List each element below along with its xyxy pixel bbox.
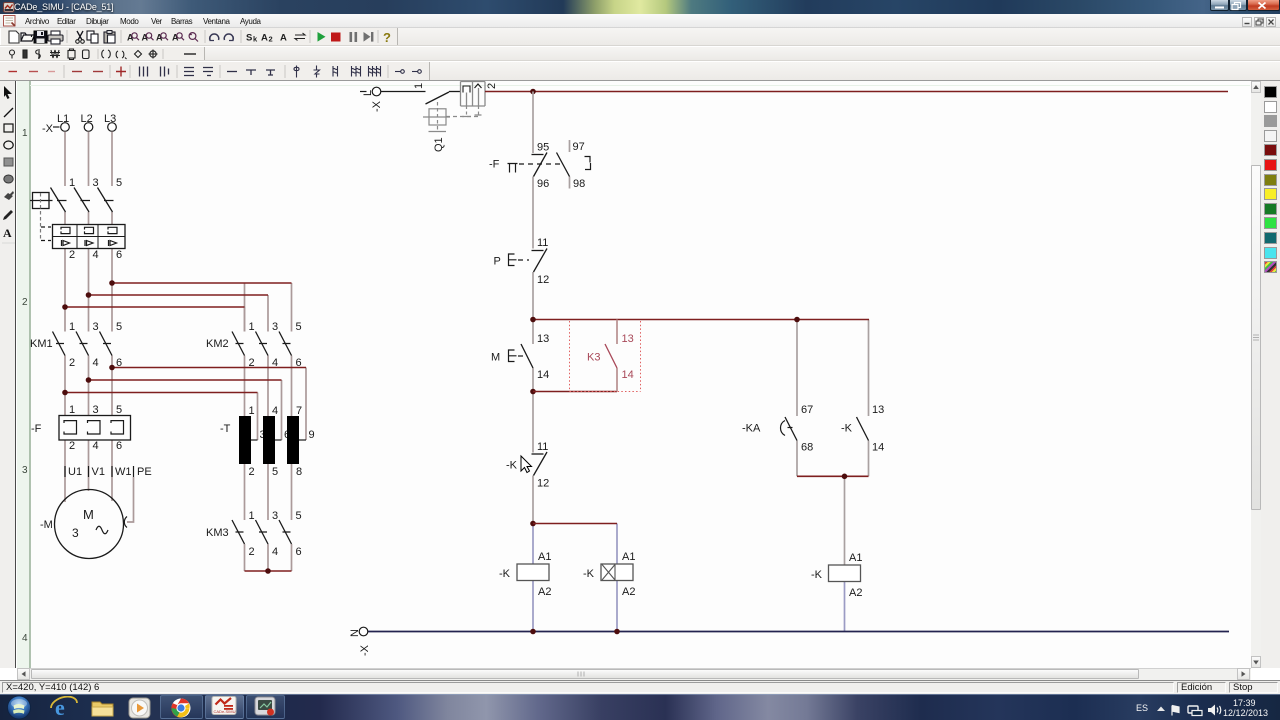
svg-text:14: 14 bbox=[622, 369, 634, 381]
svg-text:U1: U1 bbox=[68, 466, 82, 478]
svg-text:KM3: KM3 bbox=[206, 527, 229, 539]
svg-text:2: 2 bbox=[249, 466, 255, 478]
svg-text:2: 2 bbox=[249, 357, 255, 369]
svg-text:6: 6 bbox=[116, 357, 122, 369]
svg-text:6: 6 bbox=[296, 357, 302, 369]
svg-text:13: 13 bbox=[537, 333, 549, 345]
svg-text:A2: A2 bbox=[538, 586, 551, 598]
svg-text:4: 4 bbox=[93, 357, 99, 369]
svg-text:4: 4 bbox=[22, 633, 28, 644]
svg-text:A1: A1 bbox=[622, 551, 635, 563]
svg-text:14: 14 bbox=[872, 442, 884, 454]
svg-text:-K: -K bbox=[499, 568, 511, 580]
svg-text:-K: -K bbox=[583, 568, 595, 580]
svg-text:6: 6 bbox=[116, 440, 122, 452]
svg-text:W1: W1 bbox=[115, 466, 132, 478]
svg-text:A2: A2 bbox=[849, 587, 862, 599]
svg-text:95: 95 bbox=[537, 142, 549, 154]
svg-text:-X: -X bbox=[359, 644, 371, 656]
svg-text:13: 13 bbox=[622, 333, 634, 345]
svg-text:98: 98 bbox=[573, 178, 585, 190]
svg-text:5: 5 bbox=[116, 177, 122, 189]
svg-text:14: 14 bbox=[537, 369, 549, 381]
svg-text:67: 67 bbox=[801, 404, 813, 416]
svg-text:V1: V1 bbox=[92, 466, 105, 478]
svg-text:11: 11 bbox=[537, 237, 548, 249]
svg-text:2: 2 bbox=[69, 357, 75, 369]
svg-text:-K: -K bbox=[811, 569, 823, 581]
svg-text:A2: A2 bbox=[622, 586, 635, 598]
svg-text:2: 2 bbox=[22, 297, 28, 308]
svg-text:96: 96 bbox=[537, 178, 549, 190]
svg-text:A: A bbox=[3, 226, 12, 240]
svg-text:1: 1 bbox=[249, 510, 255, 522]
svg-text:-X: -X bbox=[42, 123, 54, 135]
svg-text:1: 1 bbox=[249, 321, 255, 333]
svg-text:12: 12 bbox=[537, 478, 549, 490]
svg-text:3: 3 bbox=[272, 321, 278, 333]
svg-text:CADe-SIMU: CADe-SIMU bbox=[214, 709, 236, 714]
svg-text:-T: -T bbox=[220, 423, 231, 435]
svg-text:13: 13 bbox=[872, 404, 884, 416]
svg-text:3: 3 bbox=[93, 177, 99, 189]
svg-text:4: 4 bbox=[272, 357, 278, 369]
svg-text:K3: K3 bbox=[587, 352, 600, 364]
svg-text:P: P bbox=[494, 256, 501, 268]
svg-text:-M: -M bbox=[40, 519, 53, 531]
svg-text:M: M bbox=[83, 507, 94, 522]
svg-text:9: 9 bbox=[309, 429, 315, 441]
svg-text:1: 1 bbox=[22, 128, 28, 139]
svg-text:?: ? bbox=[383, 30, 391, 45]
svg-text:1: 1 bbox=[69, 404, 75, 416]
svg-text:-K: -K bbox=[841, 423, 853, 435]
svg-text:3: 3 bbox=[93, 321, 99, 333]
svg-text:2: 2 bbox=[69, 440, 75, 452]
svg-text:Q1: Q1 bbox=[433, 137, 445, 152]
svg-text:4: 4 bbox=[272, 546, 278, 558]
svg-text:6: 6 bbox=[296, 546, 302, 558]
svg-text:M: M bbox=[491, 352, 500, 364]
svg-text:4: 4 bbox=[93, 440, 99, 452]
svg-text:97: 97 bbox=[573, 141, 585, 153]
svg-text:2: 2 bbox=[486, 83, 498, 89]
svg-text:3: 3 bbox=[72, 526, 79, 540]
svg-text:-KA: -KA bbox=[742, 423, 761, 435]
svg-text:PE: PE bbox=[137, 466, 152, 478]
svg-text:KM2: KM2 bbox=[206, 338, 229, 350]
svg-text:5: 5 bbox=[116, 321, 122, 333]
svg-text:4: 4 bbox=[272, 405, 278, 417]
svg-text:1: 1 bbox=[249, 405, 255, 417]
svg-text:A: A bbox=[280, 33, 287, 44]
svg-text:12: 12 bbox=[537, 274, 549, 286]
svg-text:2: 2 bbox=[269, 35, 273, 44]
svg-text:1: 1 bbox=[413, 83, 425, 89]
svg-text:L: L bbox=[362, 90, 374, 96]
svg-text:5: 5 bbox=[272, 466, 278, 478]
svg-text:5: 5 bbox=[296, 510, 302, 522]
svg-text:5: 5 bbox=[116, 404, 122, 416]
svg-text:S: S bbox=[246, 33, 252, 44]
svg-text:8: 8 bbox=[296, 466, 302, 478]
svg-text:A1: A1 bbox=[849, 552, 862, 564]
svg-text:A: A bbox=[261, 33, 268, 44]
svg-text:-F: -F bbox=[31, 423, 42, 435]
svg-text:3: 3 bbox=[22, 465, 28, 476]
svg-text:2: 2 bbox=[249, 546, 255, 558]
svg-text:11: 11 bbox=[537, 441, 548, 453]
svg-text:4: 4 bbox=[93, 249, 99, 261]
svg-text:1: 1 bbox=[69, 321, 75, 333]
svg-text:-F: -F bbox=[489, 159, 500, 171]
svg-text:7: 7 bbox=[296, 405, 302, 417]
svg-text:2: 2 bbox=[69, 249, 75, 261]
svg-text:68: 68 bbox=[801, 442, 813, 454]
svg-text:-X: -X bbox=[371, 100, 383, 112]
svg-text:3: 3 bbox=[93, 404, 99, 416]
svg-text:5: 5 bbox=[296, 321, 302, 333]
svg-text:A1: A1 bbox=[538, 551, 551, 563]
svg-text:3: 3 bbox=[272, 510, 278, 522]
svg-text:KM1: KM1 bbox=[30, 338, 53, 350]
svg-text:6: 6 bbox=[116, 249, 122, 261]
svg-text:N: N bbox=[349, 629, 361, 637]
svg-text:-K: -K bbox=[506, 460, 518, 472]
svg-text:1: 1 bbox=[69, 177, 75, 189]
